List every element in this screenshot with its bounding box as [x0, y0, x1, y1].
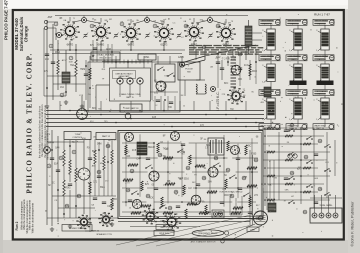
svg-text:0FK: 0FK: [238, 79, 243, 81]
svg-text:ANT: ANT: [48, 16, 53, 19]
svg-text:PART 39: PART 39: [318, 93, 327, 96]
svg-text:PHILCO RADIO & TELEV. CORP.: PHILCO RADIO & TELEV. CORP.: [27, 52, 34, 193]
svg-text:5M: 5M: [274, 177, 277, 179]
svg-text:WAVE TRAP: WAVE TRAP: [314, 124, 326, 127]
svg-text:445C: 445C: [246, 146, 252, 148]
svg-text:2777: 2777: [125, 183, 131, 185]
svg-text:USES AUTO RADIO: USES AUTO RADIO: [115, 72, 133, 75]
svg-text:FMMA: FMMA: [198, 201, 205, 204]
svg-text:CC: CC: [215, 58, 219, 60]
svg-text:I.F.=470 K.C.: I.F.=470 K.C.: [216, 91, 220, 110]
svg-text:POWER TRANS.: POWER TRANS.: [69, 227, 85, 230]
svg-text:4CC: 4CC: [244, 65, 249, 67]
svg-text:2 GANG TUNING COND.: 2 GANG TUNING COND.: [119, 93, 141, 96]
svg-text:WAVE TRAP: WAVE TRAP: [260, 124, 272, 127]
svg-text:IF TRANS: IF TRANS: [317, 90, 327, 93]
svg-text:PART 15: PART 15: [126, 96, 133, 99]
svg-text:While the circuit arrangements: While the circuit arrangements: [23, 198, 26, 229]
svg-text:4A5: 4A5: [152, 116, 157, 119]
svg-text:PART 38: PART 38: [318, 22, 327, 25]
svg-text:CA: CA: [136, 158, 140, 161]
svg-text:MKA: MKA: [55, 51, 60, 54]
svg-text:Run 2: Run 2: [15, 221, 19, 230]
svg-text:AFM: AFM: [106, 48, 111, 51]
svg-text:PART 40: PART 40: [316, 127, 325, 130]
svg-text:SPEAKER 27 TB: SPEAKER 27 TB: [96, 233, 112, 236]
svg-text:PART 36: PART 36: [318, 58, 327, 61]
svg-text:TONE: TONE: [75, 134, 81, 136]
svg-text:OSC COIL: OSC COIL: [290, 91, 300, 93]
svg-text:ANT. STANDBY SWITCH: ANT. STANDBY SWITCH: [191, 240, 216, 243]
svg-text:70K5: 70K5: [65, 188, 71, 190]
svg-text:6K2: 6K2: [206, 145, 211, 147]
svg-text:MC0: MC0: [252, 71, 258, 73]
svg-text:KM: KM: [165, 75, 168, 77]
svg-text:PART 31: PART 31: [264, 58, 273, 61]
svg-text:the electrolytic condensers in: the electrolytic condensers in the base …: [39, 105, 42, 158]
svg-text:08K: 08K: [285, 190, 289, 192]
svg-text:F265: F265: [251, 154, 257, 156]
svg-text:TERM. PANEL: TERM. PANEL: [319, 204, 333, 207]
svg-text:6CK: 6CK: [149, 198, 154, 200]
svg-text:PHILCO PAGE 7-87: PHILCO PAGE 7-87: [4, 0, 9, 40]
svg-text:12M5: 12M5: [178, 57, 184, 59]
svg-text:PART 7 (2): PART 7 (2): [263, 22, 273, 25]
svg-text:6MAM: 6MAM: [148, 146, 155, 149]
svg-text:Change: Change: [24, 25, 29, 42]
svg-text:6C: 6C: [224, 175, 227, 177]
svg-text:POLICE: POLICE: [185, 69, 193, 71]
svg-text:1C: 1C: [155, 105, 158, 107]
svg-text:While the circuit arrangements: While the circuit arrangements: [31, 202, 34, 233]
svg-text:PART 52: PART 52: [102, 135, 111, 138]
svg-text:PART 29: PART 29: [291, 93, 300, 96]
svg-text:RF TRANS: RF TRANS: [290, 55, 301, 58]
svg-text:6FC: 6FC: [224, 83, 229, 85]
svg-text:78A: 78A: [70, 64, 75, 67]
svg-text:52A2: 52A2: [124, 150, 130, 153]
svg-text:While the circuit arrangemen: While the circuit arrangemen: [21, 200, 24, 229]
svg-text:OSC.: OSC.: [144, 57, 150, 59]
svg-text:2ND IF TRANS: 2ND IF TRANS: [315, 55, 329, 58]
svg-text:1ST IF TRANS: 1ST IF TRANS: [288, 20, 302, 23]
svg-text:EXC. 37-116: EXC. 37-116: [100, 57, 113, 59]
svg-text:2C: 2C: [52, 183, 55, 185]
svg-text:0M: 0M: [161, 21, 164, 23]
svg-text:6FC: 6FC: [92, 108, 97, 110]
svg-text:PART 9: PART 9: [291, 58, 299, 61]
svg-text:6K6: 6K6: [113, 199, 118, 201]
svg-text:71F: 71F: [230, 109, 235, 111]
svg-text:6MA: 6MA: [100, 186, 105, 189]
svg-text:15M: 15M: [69, 61, 73, 63]
svg-text:0A4: 0A4: [55, 146, 60, 149]
svg-text:ANT TRANS: ANT TRANS: [262, 20, 274, 23]
svg-text:MCF7M: MCF7M: [224, 195, 232, 197]
svg-text:5516: 5516: [184, 179, 190, 181]
svg-text:2ND IF TRANS: 2ND IF TRANS: [315, 20, 329, 23]
svg-text:4C5: 4C5: [132, 150, 137, 152]
svg-text:7MM: 7MM: [80, 69, 85, 71]
svg-text:OSC TRANS: OSC TRANS: [262, 55, 274, 58]
svg-text:While the circuit arrangements: While the circuit arrangements: [29, 199, 32, 230]
svg-text:PART 30: PART 30: [291, 22, 300, 25]
svg-text:ELECTROSTATIC SHIELD: ELECTROSTATIC SHIELD: [220, 191, 243, 194]
svg-text:While the circuit arrangements: While the circuit arrangements re: [26, 200, 29, 234]
svg-text:RUN 1 7-87: RUN 1 7-87: [314, 13, 330, 17]
svg-text:02A: 02A: [54, 163, 59, 166]
svg-text:54M: 54M: [97, 144, 102, 146]
svg-text:COMP. PART 18: COMP. PART 18: [124, 107, 140, 110]
svg-text:58A: 58A: [208, 180, 213, 183]
svg-text:©John F. Rider, Publisher: ©John F. Rider, Publisher: [350, 201, 355, 247]
svg-text:A2C: A2C: [297, 168, 302, 171]
svg-text:7M: 7M: [217, 22, 220, 24]
svg-text:44K: 44K: [126, 156, 131, 158]
svg-text:SW.: SW.: [187, 72, 191, 74]
svg-text:1M: 1M: [188, 188, 191, 190]
svg-text:2C: 2C: [169, 159, 172, 161]
